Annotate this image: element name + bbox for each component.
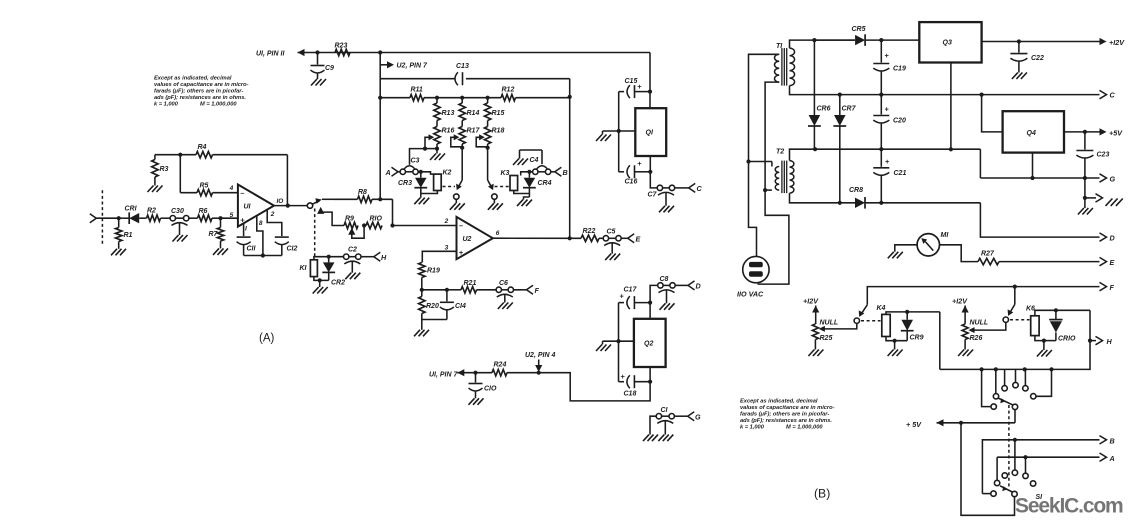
jack capacitor C30 [170, 208, 197, 235]
node junction R15 top [486, 96, 490, 100]
resistor R7 [209, 218, 224, 248]
potentiometer R26 [962, 320, 988, 350]
svg-text:R16: R16 [442, 128, 455, 135]
relay coil K3 [510, 176, 518, 191]
svg-text:R24: R24 [494, 362, 507, 369]
svg-text:+: + [885, 105, 890, 114]
svg-text:R3: R3 [160, 166, 169, 173]
svg-text:CII: CII [247, 246, 257, 253]
ground below R7 [213, 248, 228, 255]
svg-text:C18: C18 [624, 391, 637, 398]
wire Q2 input ground [596, 339, 634, 351]
mechanical link S1 [1008, 405, 1010, 489]
svg-text:+: + [621, 372, 626, 381]
relay coil K6 [1031, 316, 1039, 336]
jack capacitor C6 [496, 280, 521, 303]
ground below CR4 [517, 200, 532, 207]
svg-text:(A): (A) [259, 333, 275, 345]
svg-text:U2: U2 [463, 236, 472, 243]
capacitor C12 [275, 237, 298, 255]
wire K3 coil connections [514, 172, 530, 200]
ground below R20 [414, 330, 429, 337]
wire K4 top [886, 310, 940, 315]
transformer T1 [775, 43, 795, 86]
ground below C23 [1078, 208, 1093, 215]
svg-text:M = 1,000,000: M = 1,000,000 [786, 425, 823, 431]
svg-text:C4: C4 [530, 157, 539, 164]
wire C8 to Q2 top [648, 285, 658, 304]
svg-text:k = 1,000: k = 1,000 [154, 102, 179, 108]
wire A output [997, 453, 1115, 480]
relay coil K4 [882, 314, 890, 336]
svg-text:K4: K4 [877, 305, 886, 312]
svg-text:K2: K2 [443, 170, 452, 177]
wire B output [982, 436, 1114, 494]
node input junction [117, 216, 121, 220]
potentiometer R25 [812, 320, 838, 350]
wire R16 wiper to C3 [410, 149, 426, 165]
svg-text:R14: R14 [467, 110, 480, 117]
svg-text:C5: C5 [607, 229, 616, 236]
node R4/R5 junction [178, 153, 182, 193]
ground below K3 contact [488, 203, 503, 210]
svg-text:R11: R11 [411, 87, 423, 94]
capacitor C13 [455, 63, 469, 85]
label 110 VAC [737, 290, 764, 299]
svg-text:A: A [385, 168, 391, 177]
svg-text:CI2: CI2 [287, 246, 298, 253]
wire Q3 output +12V [982, 38, 1126, 47]
svg-text:G: G [695, 413, 701, 422]
capacitor C22 [1010, 42, 1044, 73]
supply +12V left [803, 297, 819, 325]
svg-text:R1: R1 [124, 232, 133, 239]
wire +5V to wiper 2 [961, 423, 1017, 516]
svg-text:2: 2 [444, 218, 449, 225]
svg-text:+I2V: +I2V [1109, 38, 1125, 47]
contact of K2 [454, 148, 463, 204]
svg-text:k = 1,000: k = 1,000 [740, 425, 765, 431]
wire Q4 ground pin [1030, 153, 1034, 180]
svg-text:+: + [240, 215, 245, 224]
resistor R18 potentiometer [484, 127, 504, 148]
resistor R1 [116, 218, 133, 249]
node junction R23/vertical [378, 50, 382, 54]
svg-text:R20: R20 [426, 303, 439, 310]
wire Q2 top pin [649, 303, 651, 319]
wire S1 +5V contact [961, 410, 1015, 423]
label K4 [877, 305, 886, 312]
jack capacitor C8 [658, 276, 688, 303]
svg-text:R12: R12 [502, 87, 515, 94]
output E arrow [1100, 257, 1115, 267]
capacitor C17 [619, 287, 651, 310]
node R7 junction [218, 216, 238, 220]
svg-text:C7: C7 [648, 192, 658, 199]
label K3 [501, 170, 510, 177]
svg-text:C20: C20 [893, 118, 906, 125]
ground below R26 [958, 350, 973, 357]
diode CR9 [901, 312, 924, 342]
svg-text:C15: C15 [625, 78, 638, 85]
relay coil K1 -- actually K2 [434, 174, 442, 190]
ground below CR3 [414, 198, 429, 205]
ground below C1 [658, 435, 673, 442]
svg-text:CR3: CR3 [398, 180, 412, 187]
svg-text:QI: QI [646, 130, 654, 137]
regulator Q4 block [1003, 111, 1064, 152]
wire S1 contact a [982, 369, 997, 409]
wire K6 top [1035, 308, 1090, 316]
svg-text:R2: R2 [147, 208, 156, 215]
svg-text:ads (pF); resistances are in o: ads (pF); resistances are in ohms. [154, 95, 246, 101]
resistor R15 [484, 98, 504, 127]
node CR5 cathode junction [879, 38, 883, 42]
ground below R25 [808, 350, 823, 357]
wire R20/C14 ground link [422, 320, 447, 330]
svg-text:D: D [696, 282, 701, 291]
wire K4 bus drop [939, 312, 941, 370]
wire S1 contact e [1031, 369, 1052, 399]
wire B contact strap [1014, 440, 1016, 470]
svg-text:Q2: Q2 [644, 341, 653, 348]
mechanical link K1 [314, 209, 316, 259]
svg-text:+: + [620, 292, 625, 301]
svg-text:R18: R18 [492, 128, 505, 135]
node Q4 feed junction [980, 93, 984, 97]
wire relay contact bus [940, 341, 1090, 370]
wire U2 pin 3 [422, 251, 456, 262]
node R8 top junction [378, 197, 382, 201]
svg-text:C8: C8 [660, 276, 669, 283]
label U2, PIN 7 [397, 63, 428, 70]
resistor R21 [447, 280, 496, 293]
svg-text:C21: C21 [894, 170, 907, 177]
svg-text:R5: R5 [200, 183, 209, 190]
wire U1 pin 11 rail with left arrow [298, 49, 651, 56]
wire R4 feedback rail [155, 155, 288, 206]
svg-text:C13: C13 [456, 63, 469, 70]
wire top rail corner to C15 [649, 53, 651, 92]
wire chassis ground tie [1083, 178, 1103, 208]
wire U1 bypass common [244, 253, 282, 257]
wire S1 contact d [1023, 369, 1028, 391]
transistor Q1 block [635, 108, 666, 156]
diode CR3 [398, 172, 427, 198]
diode CR6 [808, 40, 831, 149]
wire K4 bottom [886, 337, 907, 350]
wire U1 pin 8 [257, 216, 263, 255]
wire T2 primary bottom tap [765, 189, 772, 191]
svg-text:UI, PIN 7: UI, PIN 7 [429, 372, 459, 379]
label K6 [1026, 306, 1035, 313]
node junction R14 top [460, 96, 464, 100]
svg-text:UI, PIN II: UI, PIN II [256, 51, 285, 58]
svg-text:F: F [1110, 283, 1115, 292]
node junction R13 top [435, 96, 439, 100]
svg-text:4: 4 [229, 185, 234, 192]
ground below K4 [888, 350, 903, 357]
wiper of R16 [425, 134, 434, 148]
ground below R1 [111, 249, 126, 256]
wire Q4 output +5V [1064, 128, 1123, 137]
label K2 [443, 170, 452, 177]
node S1 bus taps [980, 367, 1054, 371]
svg-text:C23: C23 [1097, 152, 1110, 159]
transformer T2 [775, 149, 794, 194]
ground below C8 [660, 303, 675, 310]
diode CR1 [119, 206, 147, 225]
wire Q1 bottom pin [649, 156, 651, 172]
mechanical link K6 [1010, 319, 1030, 321]
svg-text:R26: R26 [970, 335, 983, 342]
wiper of R18 [476, 134, 490, 150]
svg-text:(B): (B) [814, 487, 830, 501]
output F jack chevron [514, 285, 540, 295]
resistor R16 potentiometer [434, 127, 455, 149]
svg-text:C19: C19 [893, 66, 906, 73]
wire Q4 input [982, 95, 1003, 132]
contact of K1 selector [307, 198, 344, 225]
wire K1 bottom [314, 277, 329, 287]
note text block B [740, 399, 835, 431]
wire bottom rail [457, 369, 650, 401]
wire H output [1088, 310, 1113, 346]
output E jack chevron [628, 234, 641, 244]
input jack A [385, 167, 423, 177]
ground below C30 [173, 235, 188, 242]
svg-text:K3: K3 [501, 170, 510, 177]
contact S1 A lower [994, 480, 999, 485]
resistor R27 [978, 251, 1100, 265]
diode CR8 [849, 187, 980, 209]
resistor R23 [335, 43, 351, 56]
svg-text:R8: R8 [358, 189, 367, 196]
svg-text:+I2V: +I2V [952, 297, 968, 306]
wire S1 contact b [1002, 369, 1007, 391]
capacitor C11 [237, 224, 257, 256]
svg-text:Except as indicated, decimal: Except as indicated, decimal [740, 399, 818, 405]
svg-text:B: B [1110, 437, 1115, 446]
node C18 junction [648, 380, 652, 384]
output D jack chevron [688, 281, 701, 291]
supply +12V right [952, 297, 969, 325]
watermark SeekIC.com [1015, 495, 1123, 518]
wire T1 primary top to mains [746, 54, 779, 256]
svg-text:C17: C17 [624, 287, 638, 294]
svg-text:+5V: +5V [1109, 129, 1123, 138]
contact of K3 [488, 148, 497, 204]
svg-text:CR6: CR6 [817, 106, 831, 113]
supply +5V [906, 419, 963, 429]
wire T2 secondary bottom [790, 193, 856, 205]
svg-text:MI: MI [941, 232, 950, 239]
relay coil K1 [310, 260, 317, 277]
wire F bus [867, 282, 1114, 304]
svg-text:RIO: RIO [370, 216, 383, 223]
contact of K4 [854, 305, 867, 324]
wire M1 left to ground [895, 245, 917, 252]
svg-text:C16: C16 [625, 179, 638, 186]
svg-text:H: H [381, 253, 387, 262]
node CR6 top [838, 93, 842, 97]
contact S1 spare right [1030, 481, 1035, 486]
svg-text:U2, PIN 4: U2, PIN 4 [525, 352, 555, 359]
resistor R3 [152, 160, 169, 186]
capacitor C23 [1076, 132, 1109, 178]
capacitor C15 [619, 78, 650, 98]
contact S1 B lower [982, 491, 996, 496]
diode CR4 [523, 172, 552, 194]
node C20 top [879, 93, 883, 97]
node R19/R20 junction [420, 288, 424, 292]
svg-text:+: + [885, 157, 890, 166]
svg-text:CR2: CR2 [331, 280, 345, 287]
svg-text:C6: C6 [499, 280, 508, 287]
capacitor C20 [873, 95, 906, 150]
diode CR2 [322, 257, 345, 287]
svg-text:+: + [637, 82, 642, 91]
svg-text:SeekIC.com: SeekIC.com [1015, 495, 1123, 518]
ground below R16 [430, 149, 445, 160]
svg-text:CR4: CR4 [538, 180, 552, 187]
resistor R13 [434, 98, 455, 127]
jack capacitor C2 [344, 247, 374, 273]
op-amp U2 [444, 217, 500, 259]
capacitor C21 [873, 149, 906, 203]
output H jack chevron [374, 252, 387, 262]
svg-text:+: + [459, 248, 464, 257]
svg-text:values of capacitance are in m: values of capacitance are in micro- [154, 82, 249, 88]
mains plug 110 VAC [743, 256, 769, 282]
svg-text:R7: R7 [209, 231, 219, 238]
capacitor C14 [440, 290, 466, 320]
svg-text:C9: C9 [325, 65, 334, 72]
svg-text:IIO VAC: IIO VAC [737, 290, 764, 299]
svg-text:R22: R22 [583, 228, 596, 235]
wire R11-R12 rail [378, 95, 572, 100]
svg-text:R15: R15 [492, 110, 505, 117]
svg-text:NULL: NULL [820, 320, 839, 327]
ground below C22 [1012, 73, 1027, 80]
switch S1 wiper 1 [998, 398, 1018, 410]
wire U2 output [493, 237, 581, 239]
ground below C2 [345, 273, 360, 280]
ground below R3 [148, 186, 163, 193]
note text block A [154, 76, 249, 108]
capacitor C19 [873, 40, 906, 95]
resistor R17 potentiometer [459, 127, 480, 148]
svg-text:C: C [1110, 91, 1116, 100]
wire main left vertical bus [379, 53, 381, 200]
svg-text:C30: C30 [171, 208, 184, 215]
capacitor C4 and ground loop [513, 150, 548, 169]
wire U1 pin 2 to C12 [267, 210, 282, 237]
node C16 junction [648, 170, 652, 174]
ground below C1 shell [643, 435, 658, 442]
wiper of R25 [819, 323, 857, 332]
wire G bus [980, 174, 1115, 184]
svg-text:R4: R4 [198, 144, 207, 151]
jack capacitor C5 [603, 229, 628, 254]
svg-text:CI4: CI4 [455, 303, 466, 310]
svg-text:F: F [535, 286, 540, 295]
svg-text:+: + [885, 51, 890, 60]
label (A) [259, 333, 275, 345]
wire K2 coil connections [421, 172, 438, 194]
wire S1 contact c [1013, 369, 1018, 387]
ground below K6 [1037, 350, 1052, 357]
svg-text:B: B [563, 168, 568, 177]
jack capacitor C7 [648, 172, 689, 206]
wire feedback right vertical [568, 98, 572, 241]
wire T1 primary bottom to mains [758, 82, 789, 284]
wire T2 secondary top rail [790, 147, 981, 161]
svg-text:E: E [636, 235, 641, 244]
svg-text:R6: R6 [199, 208, 208, 215]
wire G rail drop [979, 149, 981, 178]
svg-text:Q4: Q4 [1027, 130, 1036, 137]
svg-text:farads (μF); others are in pic: farads (μF); others are in picofar- [154, 89, 243, 95]
resistor R6 [198, 208, 221, 221]
wire Q2 bottom pin [649, 367, 651, 382]
node C21 bottom [879, 201, 883, 205]
boundary dashed line [101, 190, 103, 245]
svg-text:+: + [637, 159, 642, 168]
ground below K1 [313, 287, 328, 294]
svg-text:R25: R25 [820, 335, 833, 342]
ground below M1 [888, 252, 903, 258]
svg-text:UI: UI [244, 204, 252, 211]
op-amp U1 [229, 185, 284, 233]
svg-text:Except as indicated, decimal: Except as indicated, decimal [154, 76, 232, 82]
wire U2 pin 7 tap [380, 61, 394, 68]
svg-text:values of capacitance are in m: values of capacitance are in micro- [740, 405, 835, 411]
wiper of R17 [451, 134, 465, 150]
ground below C6 [498, 303, 513, 310]
ground below K2 contact [450, 203, 465, 210]
svg-text:C: C [697, 184, 703, 193]
svg-text:G: G [1110, 175, 1116, 184]
ground below C5 [605, 254, 620, 261]
svg-text:E: E [1110, 258, 1115, 267]
svg-text:D: D [1110, 234, 1115, 243]
svg-text:R17: R17 [467, 128, 481, 135]
svg-text:R9: R9 [345, 216, 354, 223]
svg-text:IO: IO [277, 198, 284, 205]
svg-text:NULL: NULL [970, 320, 989, 327]
resistor R24 [492, 362, 507, 376]
svg-text:R27: R27 [981, 251, 995, 258]
wire C15-C16 left vertical [618, 92, 620, 172]
resistor R8 [334, 189, 393, 203]
svg-text:+ 5V: + 5V [906, 420, 922, 429]
svg-text:CR9: CR9 [910, 335, 924, 342]
svg-text:C22: C22 [1031, 55, 1044, 62]
wiper of R26 [968, 322, 1005, 333]
svg-text:CIO: CIO [484, 386, 497, 393]
svg-text:5: 5 [230, 212, 234, 219]
label (B) [814, 487, 830, 501]
svg-text:R21: R21 [464, 280, 477, 287]
wire Q1 input ground [596, 129, 635, 141]
svg-text:–: – [240, 188, 244, 197]
svg-text:M = 1,000,000: M = 1,000,000 [200, 102, 237, 108]
diode CR7 [833, 95, 856, 203]
svg-text:R13: R13 [442, 110, 455, 117]
svg-text:A: A [1109, 454, 1115, 463]
label K1 [300, 265, 308, 272]
